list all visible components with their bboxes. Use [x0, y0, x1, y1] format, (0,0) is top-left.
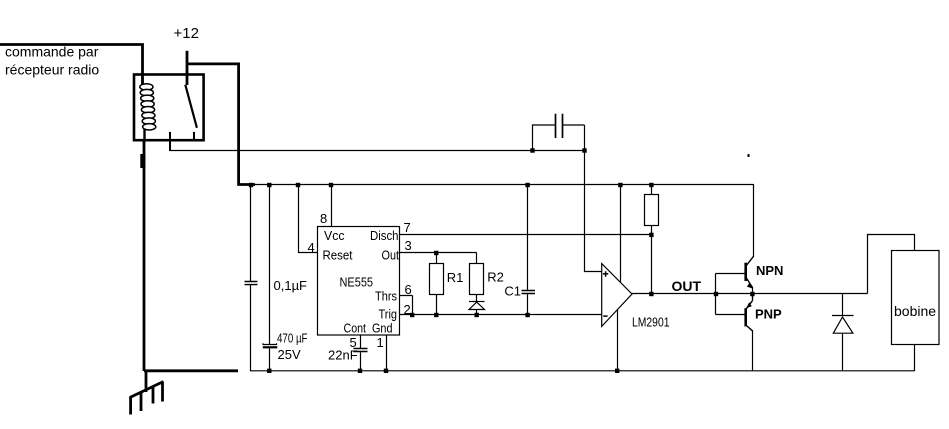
svg-text:Cont: Cont [344, 321, 367, 336]
svg-text:R1: R1 [447, 270, 464, 285]
svg-text:Out: Out [382, 248, 400, 263]
svg-text:PNP: PNP [755, 307, 782, 322]
svg-text:8: 8 [320, 211, 327, 226]
svg-text:LM2901: LM2901 [632, 315, 670, 330]
svg-text:commande par: commande par [5, 44, 99, 60]
svg-text:3: 3 [405, 238, 412, 253]
svg-text:Thrs: Thrs [375, 289, 397, 304]
svg-text:1: 1 [377, 335, 384, 350]
svg-text:Reset: Reset [323, 248, 353, 263]
svg-text:0,1µF: 0,1µF [274, 278, 308, 293]
svg-text:bobine: bobine [894, 303, 936, 319]
svg-text:7: 7 [404, 220, 411, 235]
svg-text:Gnd: Gnd [372, 321, 393, 336]
svg-text:470 µF: 470 µF [277, 331, 308, 346]
svg-text:R2: R2 [487, 270, 504, 285]
svg-text:6: 6 [405, 282, 412, 297]
svg-text:C1: C1 [504, 284, 521, 299]
svg-text:4: 4 [308, 240, 315, 255]
svg-text:+12: +12 [174, 25, 199, 42]
svg-text:NPN: NPN [756, 263, 783, 278]
svg-text:22nF: 22nF [328, 348, 358, 363]
svg-text:OUT: OUT [672, 278, 702, 294]
svg-text:NE555: NE555 [340, 275, 374, 290]
svg-text:Trig: Trig [379, 307, 398, 322]
svg-text:Disch: Disch [370, 228, 399, 243]
svg-text:25V: 25V [278, 347, 301, 362]
svg-text:Vcc: Vcc [324, 228, 345, 243]
svg-text:2: 2 [404, 302, 411, 317]
svg-text:récepteur radio: récepteur radio [5, 61, 99, 77]
